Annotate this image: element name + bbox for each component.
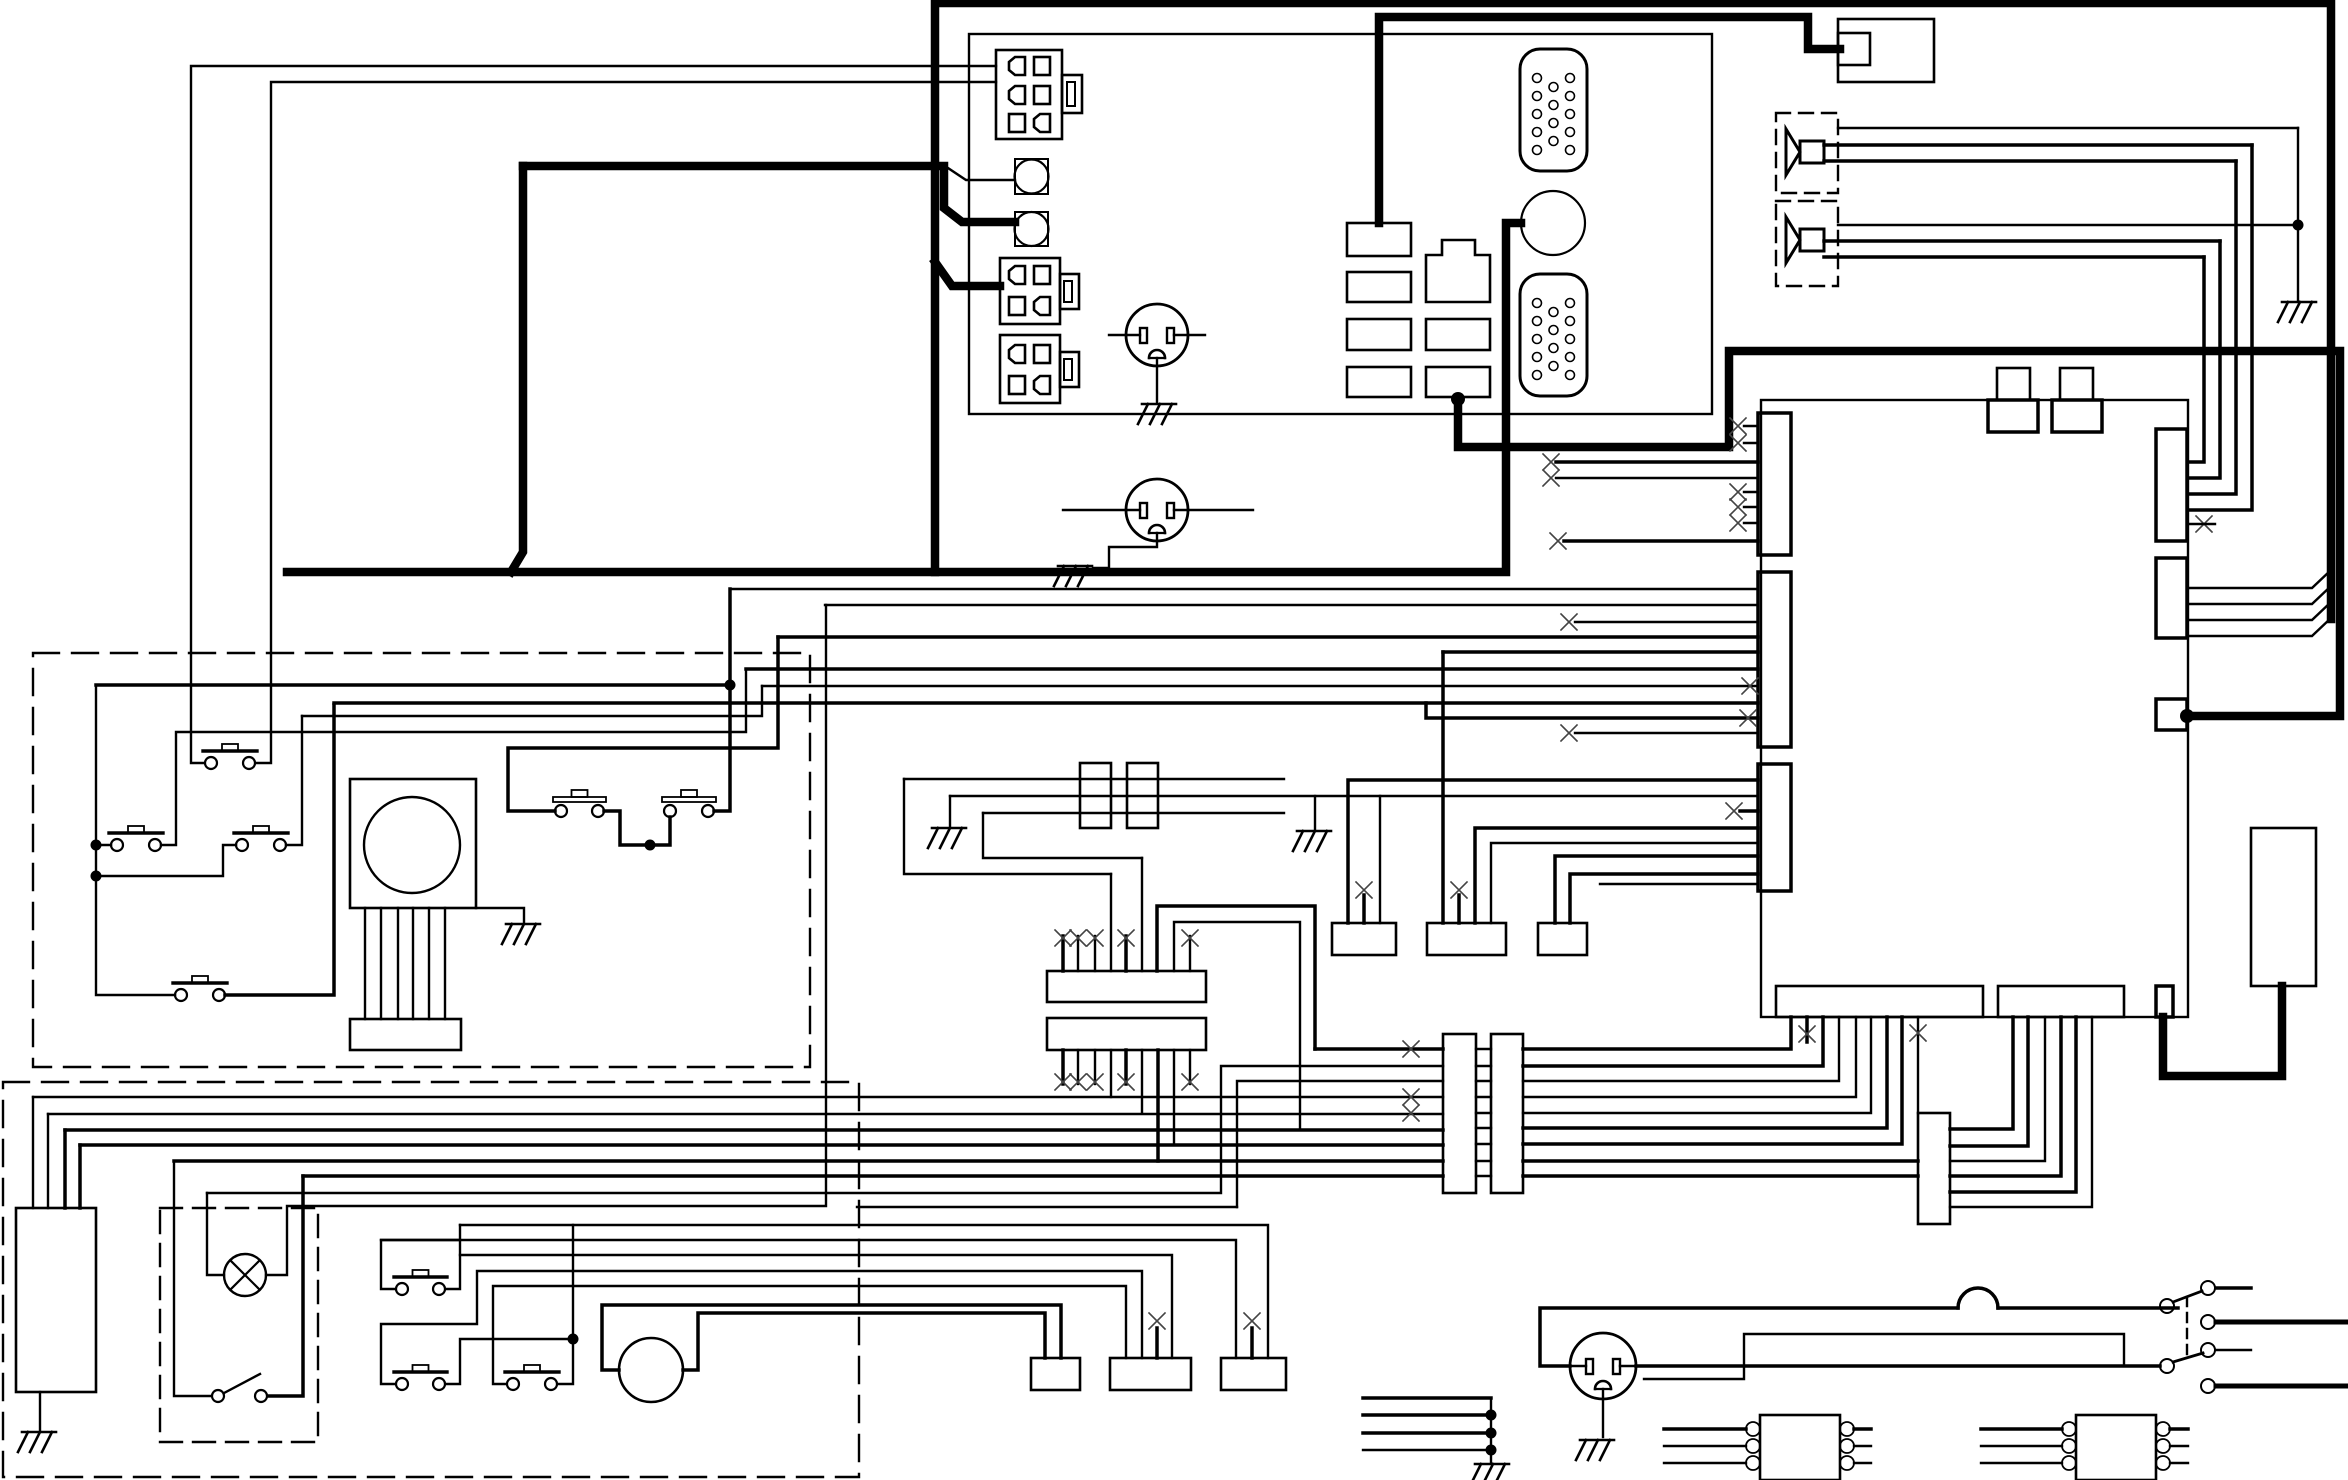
wire P1 left stub [1109, 334, 1126, 336]
wire vertical spk bus 4 [2190, 257, 2204, 462]
C X-stub [1250, 1328, 1254, 1358]
jack RJ45 [1426, 240, 1490, 302]
wire S2 pole1 out2 thick [2216, 1320, 2348, 1325]
port R3 (USB) [1347, 319, 1411, 350]
H3 X-stub [1740, 809, 1758, 813]
wire M2 pin3 to H3 [1475, 828, 1758, 923]
wire ribbon down3 [1156, 1050, 1160, 1161]
ribbon pins bottom X [1061, 1050, 1065, 1084]
connector CP1 right [1127, 763, 1158, 828]
wire WL1206 (lamp right to controller) [266, 605, 826, 1275]
inline connector pair left [1443, 1034, 1476, 1193]
wire WR1066 to B1 [1523, 1017, 1823, 1066]
ground symbol bus [1471, 1464, 1509, 1480]
wire V right 1 [1950, 1017, 2013, 1129]
dashed keypad box 2 [3, 1082, 859, 1477]
pushbutton PB1 [394, 1270, 447, 1295]
wire ribbon down2 [1141, 1050, 1143, 1113]
port R2 (USB) [1347, 272, 1411, 302]
wire M3 pin1 to H3 [1555, 856, 1758, 923]
wire W1255 to B [460, 1255, 1172, 1358]
wire R2 pin1 to border [2187, 571, 2330, 588]
connector CP1 left [1080, 763, 1111, 828]
wire WL1114 [47, 1114, 49, 1208]
wire ribbon up1 [1110, 874, 1112, 971]
big controller box (IC block) [1761, 400, 2188, 1017]
ribbon splice rect 2 [1047, 1018, 1206, 1050]
M2 X-stub [1457, 895, 1461, 923]
wire WR1128 to B1 [1523, 1017, 1887, 1128]
connector J2 4-pin molex body [1000, 258, 1060, 324]
port R6 [1426, 367, 1490, 397]
header R2 on controller right [2156, 558, 2187, 638]
pushbutton PB3 [505, 1365, 559, 1390]
switch S1 in lamp box [212, 1390, 224, 1402]
port R4s on controller right bottom [2156, 986, 2173, 1017]
connector C [1221, 1358, 1286, 1390]
connector J3 pins [1009, 345, 1025, 363]
wire SP2 plus [1824, 239, 2220, 243]
wire W541 with X [1564, 539, 1758, 543]
dashed control panel box 1 [33, 653, 810, 1067]
wire W884 stub [1600, 883, 1758, 885]
wire P1 to ground [1156, 358, 1158, 402]
wire vertical spk bus 1 [2190, 145, 2252, 510]
wire WR1144 to B1 [1523, 1017, 1902, 1144]
wire S2 pole2 out [2216, 1384, 2348, 1389]
wire WR1049 to B1 [1523, 1017, 1791, 1049]
wire PB3 right riser [558, 1225, 573, 1384]
wire SP1 minus [1824, 159, 2236, 163]
power plug P3 [1570, 1333, 1636, 1399]
wire PB1 right riser [446, 1225, 460, 1289]
wire pair W779 [904, 779, 1111, 874]
power outlet P2 [1126, 479, 1188, 541]
connector J1 side tab [1062, 75, 1082, 113]
motor M2 circle [619, 1338, 683, 1402]
wire W686 (SWC net to H2) [762, 685, 1758, 687]
controller bottom connector B2 [1998, 986, 2124, 1017]
power outlet P1 [1126, 304, 1188, 366]
ribbon splice rect 1 [1047, 971, 1206, 1002]
wire W1207 riser [857, 1206, 1237, 1208]
wire SP1 plus [1824, 143, 2252, 147]
chip U1 with pins [1760, 1415, 1840, 1480]
wire WR1097 to B1 [1523, 1017, 1856, 1097]
wire P3 left to switch pole1 [1540, 1308, 1958, 1366]
wire P2 left stub [1063, 509, 1126, 511]
pushbutton SW-F [662, 790, 716, 817]
wire WL1145 [78, 1145, 82, 1208]
connector J1 6-pin molex body [996, 50, 1062, 139]
wire S2 pole1 out1 [2216, 1286, 2251, 1290]
wire W589 (SWF net to H2) [730, 588, 1758, 590]
wire PB3 left riser to B [493, 1286, 1126, 1384]
wire SWE left up [508, 637, 778, 811]
inline connector pair right [1491, 1034, 1523, 1193]
wire SP2 frame [1838, 224, 2298, 226]
wire KL to ground [39, 1392, 41, 1430]
wire pair W796 grounds [950, 795, 1758, 797]
wire W716 step [302, 686, 762, 716]
B1 X-stub pin [1805, 1017, 1809, 1042]
connector M1 [1332, 923, 1396, 955]
wire P1 right stub [1188, 334, 1205, 336]
wire P3 ground [1602, 1389, 1604, 1437]
thick wire R6 to controller (big loop) [1451, 392, 1465, 406]
thick wire W-main-loop (K wire down-left, across, up to DIN) [511, 166, 523, 572]
X mark near R1 right [2196, 516, 2212, 532]
wire W703 (SWD net to H2) [334, 701, 1758, 705]
remote module inner square [1838, 33, 1870, 65]
ground bus vertical [1490, 1398, 1492, 1462]
speaker SP1 [1786, 129, 1824, 175]
wire SWB left to bus [96, 844, 111, 846]
thick wire relay to controller [2163, 986, 2282, 1076]
ground symbol P1 [1138, 404, 1176, 424]
port R5 [1426, 319, 1490, 350]
thick wire into J2 [935, 262, 1000, 286]
wire SWB right up [161, 669, 746, 845]
wire V right 4 [1950, 1017, 2061, 1176]
wire WL1130 [63, 1130, 67, 1208]
wire R2 pin2 to border [2187, 587, 2330, 604]
connector DIN CN2 circle [1521, 191, 1585, 255]
wire pair W813 [983, 812, 1284, 814]
pushbutton SW-B [109, 826, 163, 851]
standoff K1 circle-in-square [1015, 159, 1048, 194]
wire W669 (SWB2 net to H2) [746, 667, 1758, 671]
chip U2 with pins [2076, 1415, 2156, 1480]
thick wire W-audio from left to K1/K2 [523, 166, 1015, 222]
wire ribbon thick corner right1 [1157, 906, 1315, 1049]
speaker SP2 dashed box [1776, 201, 1838, 286]
wire SWE-SWF link [604, 811, 670, 845]
header H3 on controller left [1758, 764, 1791, 891]
pushbutton SW-E [553, 790, 606, 817]
connector DB15 CN3 [1520, 274, 1587, 396]
connector B [1110, 1358, 1191, 1390]
wire SWC right up [286, 716, 302, 845]
wire ribbon down4 [1173, 1050, 1175, 1145]
wire M3 pin2 to H3 [1570, 874, 1758, 923]
port R3s on controller right [2156, 699, 2187, 730]
wire motor M2 right [683, 1313, 1045, 1370]
ground symbol speakers [2278, 302, 2316, 322]
wire PB2 left riser to B [381, 1271, 1142, 1384]
wire S2 pole2 NO out [2216, 1349, 2251, 1351]
ground bus line4 [1363, 1449, 1491, 1451]
pushbutton SW-A [203, 744, 257, 769]
wire molex J1 pin2 to node B [256, 82, 996, 763]
switch S2 pole2 [2160, 1359, 2174, 1373]
wire WR1161 into V [1523, 1159, 1918, 1163]
wire PB1 left riser [381, 1240, 460, 1289]
ground bus line1 [1363, 1396, 1491, 1400]
dashed lamp box [160, 1208, 318, 1442]
wire P2 right stub [1188, 509, 1253, 511]
wire V right 2 [1950, 1017, 2028, 1146]
wire R2 pin4 to border [2187, 619, 2330, 636]
H1 X-stub pin y=443 [1744, 442, 1758, 444]
lamp L1 (X lamp) [224, 1254, 266, 1296]
ground bus line2 [1363, 1413, 1491, 1417]
pushbutton PB2 [394, 1365, 447, 1390]
H1 X-stub pin y=426 [1744, 425, 1758, 427]
wire WR1176 into V [1523, 1174, 1918, 1178]
ground symbol M1 [502, 924, 540, 944]
port R1 (USB) [1347, 223, 1411, 256]
wire WL1193 (lamp left to pair) [207, 1193, 224, 1275]
connector J2 pins [1009, 266, 1025, 284]
connector M2 [1427, 923, 1506, 955]
pushbutton SW-C [234, 826, 288, 851]
wire W622 X-stub [1575, 621, 1758, 623]
connector DB15 CN1 [1520, 49, 1587, 171]
ground symbol P2 [1054, 566, 1092, 586]
switch S2 dashed link [2186, 1297, 2188, 1357]
wire M2 pin4 to H3 [1491, 843, 1758, 923]
remote module box [1838, 19, 1934, 82]
controller top module 2 [2060, 368, 2093, 400]
speaker SP2 [1786, 217, 1824, 263]
wires through pair [1476, 1048, 1491, 1050]
ground symbol KL [18, 1432, 56, 1452]
connector A [1031, 1358, 1080, 1390]
wire W478 with X [1556, 477, 1758, 479]
wire W1379 zigzag to switch [1644, 1334, 2124, 1379]
switch S2 pole1 [2160, 1299, 2174, 1313]
ground symbol P3 [1576, 1440, 1614, 1460]
H1 X-stub pin y=492 [1744, 491, 1758, 493]
wire M1 pin1 to H3 [1348, 780, 1758, 923]
wire molex J1 pin1 to node A [191, 66, 996, 763]
relay module tall box [2251, 828, 2316, 986]
wire M1 pin3 to ground [1379, 796, 1381, 923]
wire ribbon down1 [1110, 1050, 1112, 1097]
wire WR1113 to B1 [1523, 1017, 1871, 1113]
vertical connector V [1918, 1113, 1950, 1224]
port R4 (USB) [1347, 367, 1411, 397]
wire B1 to V top [1917, 1017, 1919, 1113]
wire SP1 frame [1838, 127, 2298, 129]
wire vertical spk bus 3 [2190, 241, 2220, 478]
outer computer enclosure thick border (top box) [935, 3, 2331, 619]
wire left bus vertical [96, 685, 175, 995]
wire SWC left loop [96, 845, 236, 876]
pushbutton SW-D [173, 976, 227, 1001]
ground bus line3 [1363, 1431, 1491, 1435]
wire W652 (M2 net to H2) [1443, 650, 1758, 654]
B X-stub [1155, 1328, 1159, 1358]
M1 X-stub [1362, 895, 1366, 923]
wire W685 to junction [96, 683, 730, 687]
wire SWF right up [714, 589, 730, 811]
wire vertical spk bus 2 [2190, 161, 2236, 494]
wire P3 right to switch pole2 [1636, 1364, 2160, 1368]
wire W718 short [1426, 703, 1758, 718]
header H2 on controller left [1758, 572, 1791, 747]
wire WL1097 [32, 1097, 34, 1208]
connector J1 pins [1009, 57, 1025, 75]
wire M1 to ground [476, 908, 524, 922]
motor M1 legs [364, 908, 366, 1019]
H1 X-stub pin y=507 [1744, 506, 1758, 508]
motor M1 circle [364, 797, 460, 893]
speaker SP1 dashed box [1776, 113, 1838, 193]
wire WL1176 (lamp switch) [268, 1176, 303, 1396]
thick wire R1 to remote module [1379, 17, 1840, 223]
inner thin box (I/O panel) [969, 34, 1712, 414]
wire SWD right up [225, 705, 334, 995]
wire W636 (SWE net to H2) [778, 635, 1758, 639]
wire V right 3 [1950, 1017, 2045, 1161]
wire W462 with X [1556, 460, 1758, 464]
controller top module 1 [1997, 368, 2030, 400]
connector M3 [1538, 923, 1587, 955]
header H1 on controller left [1758, 413, 1791, 555]
connector J3 4-pin molex body [1000, 335, 1060, 403]
wire motor M2 left [602, 1305, 1061, 1370]
wire PB2 right riser [446, 1339, 573, 1384]
connector J3 side tab [1060, 352, 1079, 387]
wire ribbon corner right2 [1174, 922, 1300, 1128]
ground symbol mid-left [928, 828, 966, 848]
wire M2 pin1 to W652 [1441, 652, 1445, 923]
motor M1 base [350, 1019, 461, 1050]
wire SP2 minus [1824, 255, 2204, 259]
ground symbol mid-right [1293, 831, 1331, 851]
ribbon pins top X [1061, 936, 1065, 971]
standoff K2 circle-in-square [1015, 212, 1048, 246]
wire W1225 to C [460, 1225, 1268, 1358]
wire W605 (lamp net to H2) [825, 604, 1758, 606]
wire WR1081 to B1 [1523, 1017, 1839, 1081]
H1 X-stub pin y=523 [1744, 522, 1758, 524]
keypad connector box KL [16, 1208, 96, 1392]
wire WL1161 (lamp box feed) [174, 1161, 211, 1396]
wire speaker ground drop [2297, 128, 2299, 300]
wire W1240 to C [381, 1240, 1236, 1358]
wire W733 X-stub [1575, 732, 1758, 734]
motor M1 box [350, 779, 476, 908]
wire WL1049 [1315, 1047, 1443, 1051]
controller bottom connector B1 [1776, 986, 1983, 1017]
wire R2 pin3 to border [2187, 603, 2330, 620]
wire V right 5 [1950, 1017, 2076, 1192]
wire WL1081 [1237, 1081, 1443, 1207]
wire V right 6 [1950, 1017, 2092, 1207]
wire ribbon up2 [1141, 858, 1143, 971]
connector J2 side tab [1060, 274, 1079, 309]
header R1 on controller right [2156, 429, 2187, 541]
wire P2 ground path [1093, 533, 1157, 568]
